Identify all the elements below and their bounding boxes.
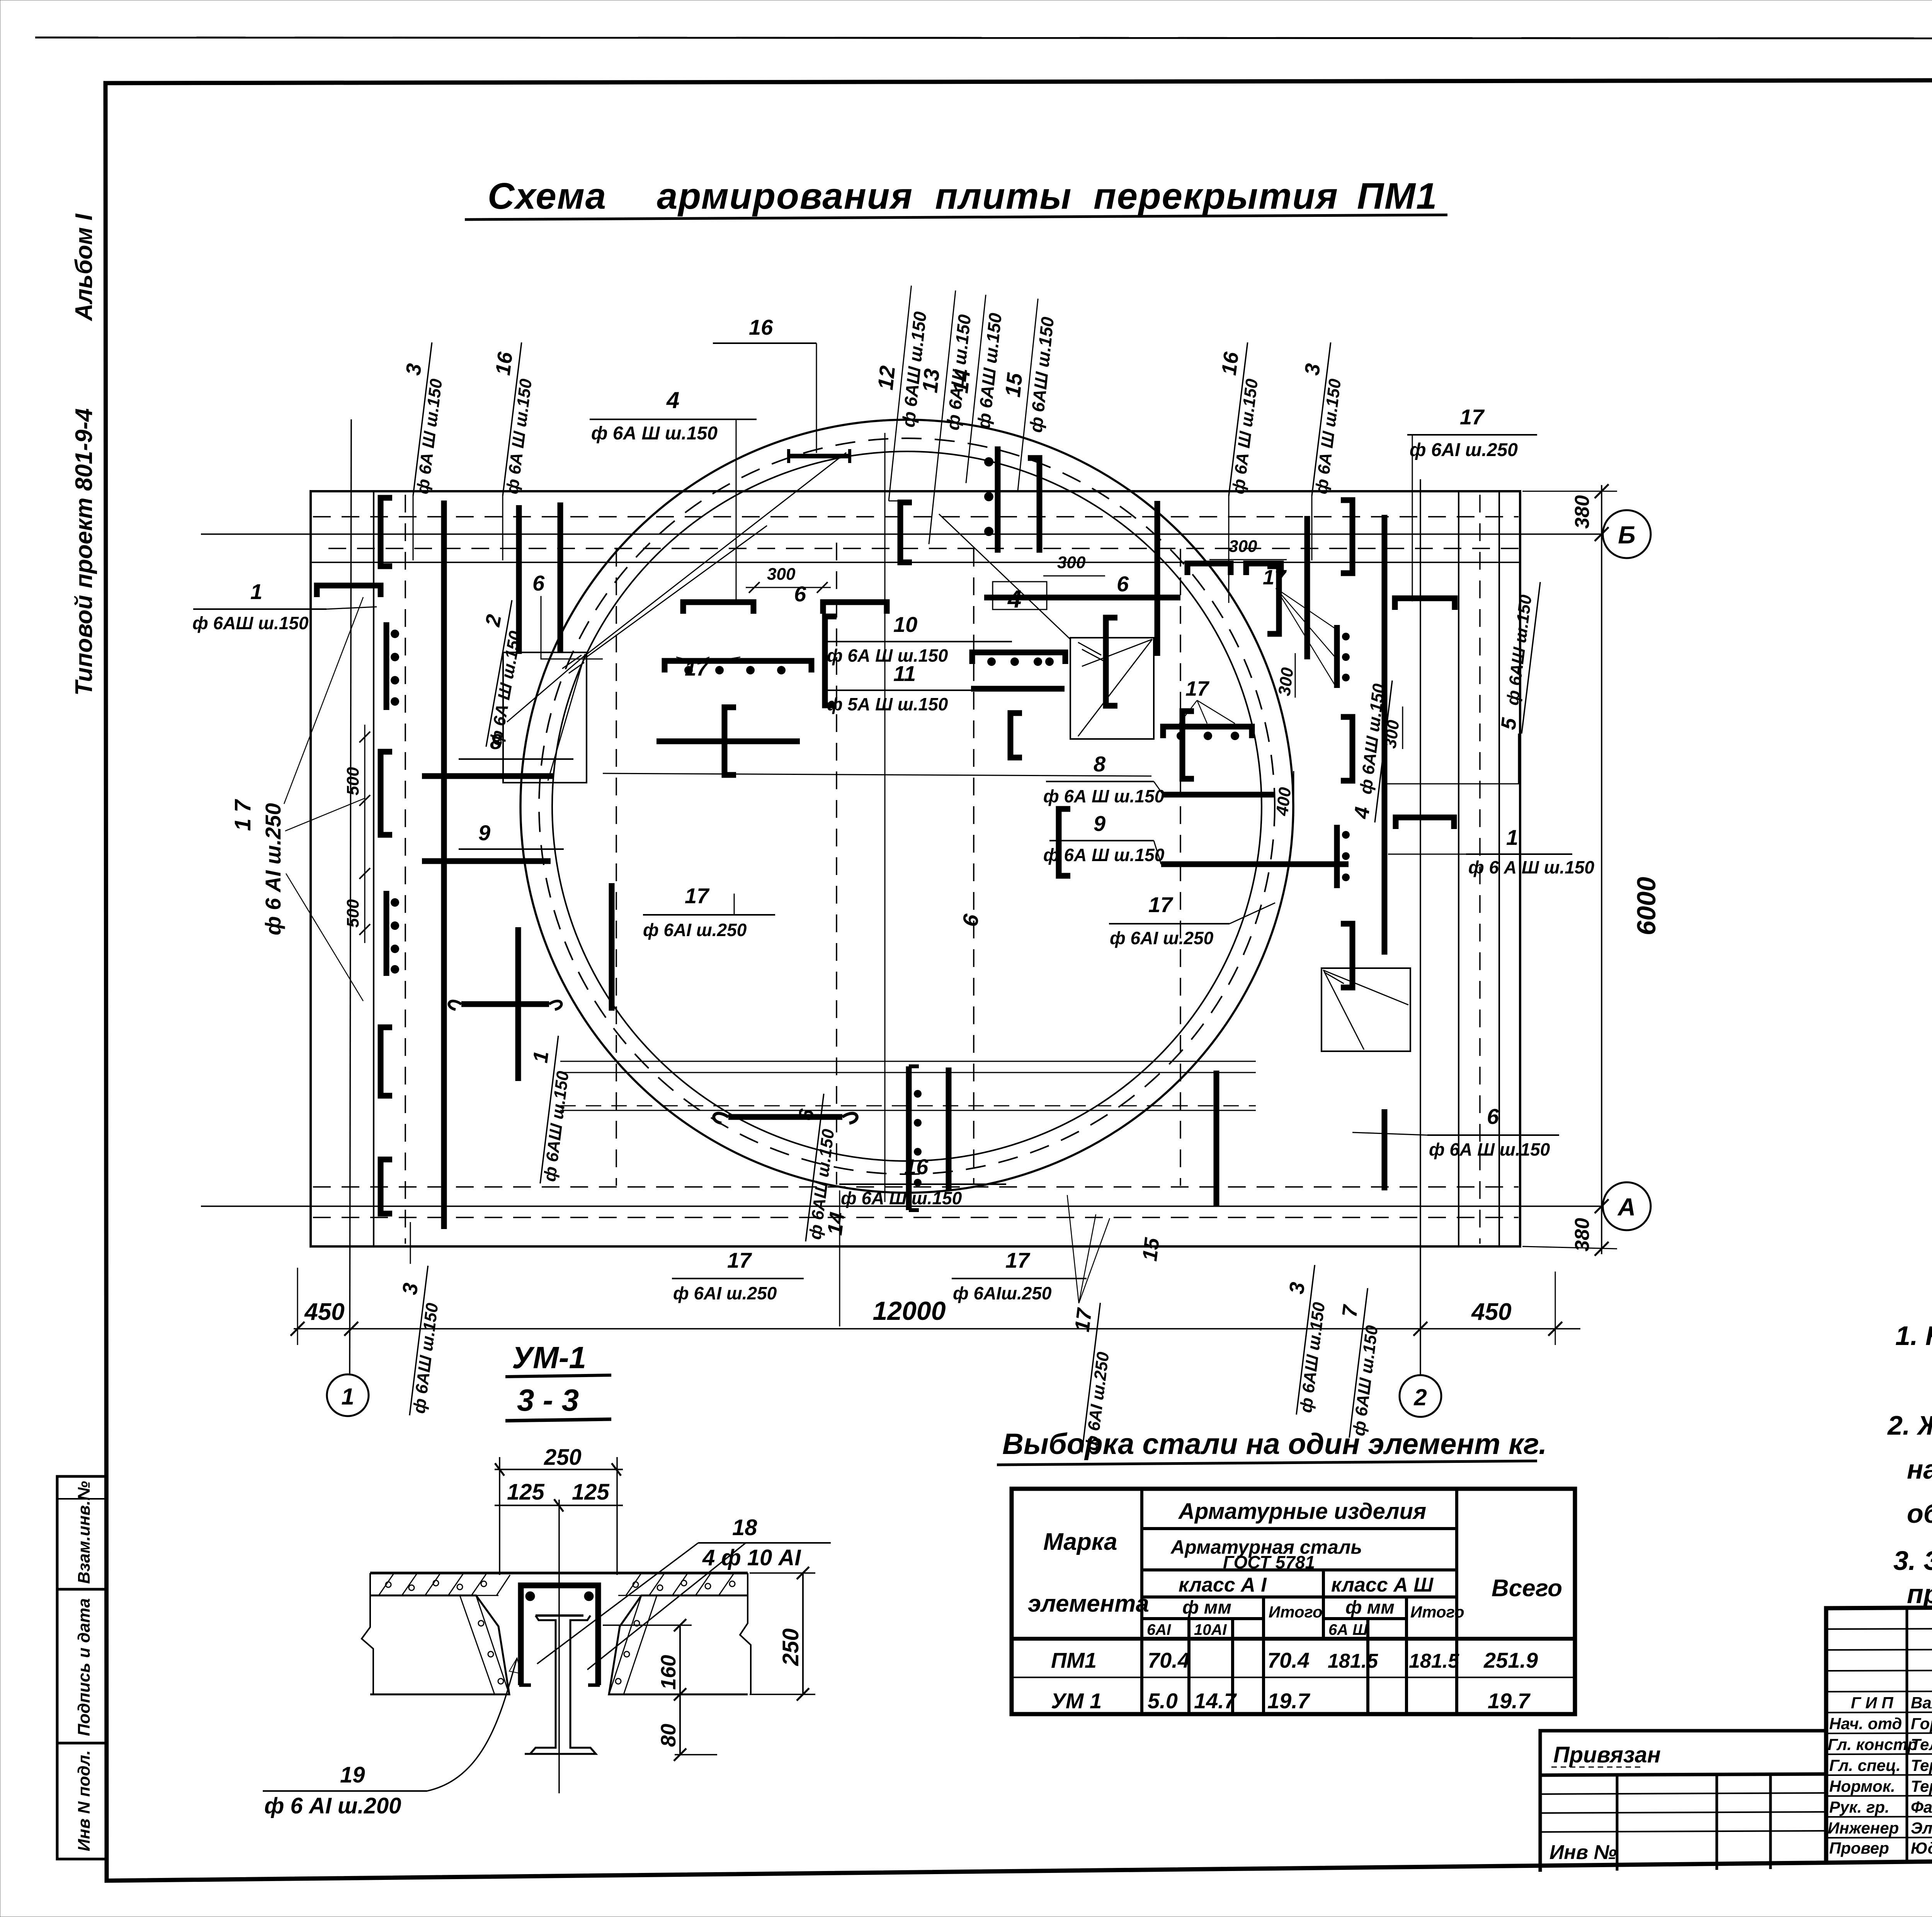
- left wall comb bars pos.17: [384, 622, 389, 710]
- svg-text:плиты: плиты: [935, 175, 1072, 217]
- svg-text:6: 6: [794, 582, 806, 606]
- centre horizontal bars: [984, 595, 1180, 601]
- svg-text:17: 17: [1070, 1306, 1096, 1333]
- svg-text:2: 2: [1413, 1384, 1427, 1410]
- svg-text:ф 6А Ш ш.150: ф 6А Ш ш.150: [413, 378, 446, 495]
- svg-text:ф 6АIш.250: ф 6АIш.250: [953, 1283, 1052, 1303]
- signature rows: [1826, 1628, 1932, 1838]
- svg-text:400: 400: [1272, 786, 1295, 817]
- axis line B: [201, 533, 1603, 535]
- svg-text:Альбом I: Альбом I: [71, 213, 97, 322]
- svg-text:5.0: 5.0: [1148, 1689, 1178, 1713]
- svg-text:класс А I: класс А I: [1179, 1574, 1267, 1596]
- svg-text:оборудования (насосов) равны: оборудования (насосов) равный 1.2т: [1907, 1498, 1932, 1529]
- svg-text:19: 19: [340, 1762, 365, 1788]
- svg-text:5: 5: [1497, 716, 1521, 731]
- svg-text:160: 160: [657, 1655, 680, 1690]
- top centre comb: [665, 661, 811, 672]
- svg-text:ф 6АШ ш.150: ф 6АШ ш.150: [540, 1070, 573, 1183]
- svg-text:70.4: 70.4: [1267, 1648, 1310, 1672]
- svg-text:принят 15мм: принят 15мм: [1907, 1579, 1932, 1609]
- svg-text:армирования: армирования: [657, 175, 913, 217]
- I-beam: [525, 1616, 596, 1754]
- svg-text:17: 17: [1148, 892, 1173, 917]
- svg-text:ф 6АI ш.250: ф 6АI ш.250: [1110, 928, 1214, 948]
- svg-text:6А Ш: 6А Ш: [1328, 1621, 1368, 1638]
- svg-text:10АI: 10АI: [1194, 1621, 1227, 1638]
- svg-text:14.7: 14.7: [1194, 1689, 1237, 1713]
- svg-text:380: 380: [1571, 495, 1594, 529]
- svg-text:Инв №: Инв №: [1549, 1841, 1617, 1864]
- bracket centre: [1010, 713, 1022, 758]
- axis line 2: [1420, 479, 1421, 1375]
- svg-text:Подпись и дата: Подпись и дата: [75, 1598, 94, 1736]
- combs with dots near top centre: [995, 446, 1001, 553]
- svg-text:Нормок.: Нормок.: [1829, 1777, 1895, 1795]
- svg-text:Итого: Итого: [1269, 1603, 1323, 1621]
- svg-text:ф 6АШ ш.150: ф 6АШ ш.150: [1349, 1324, 1382, 1437]
- svg-text:6: 6: [532, 571, 545, 595]
- svg-text:4: 4: [1350, 805, 1374, 820]
- svg-text:ф 6 АI ш.200: ф 6 АI ш.200: [264, 1793, 401, 1818]
- svg-text:УМ-1: УМ-1: [512, 1340, 586, 1375]
- right long bars: [1382, 1109, 1388, 1190]
- svg-text:ф 6АI ш.250: ф 6АI ш.250: [1410, 440, 1518, 460]
- privyazan block: [1540, 1731, 1826, 1872]
- svg-text:Фаерштейн: Фаерштейн: [1911, 1798, 1932, 1816]
- svg-text:251.9: 251.9: [1483, 1648, 1538, 1672]
- wall inner face left: [373, 491, 374, 1246]
- signature labels: [1828, 1694, 1932, 1857]
- svg-text:500: 500: [344, 767, 362, 795]
- left haunch outline: [370, 1595, 509, 1694]
- svg-text:11: 11: [893, 661, 916, 686]
- rotated labels right side: [1496, 579, 1540, 734]
- svg-text:ф 5А Ш ш.150: ф 5А Ш ш.150: [827, 694, 948, 714]
- svg-text:Арматурные изделия: Арматурные изделия: [1178, 1499, 1426, 1524]
- svg-text:80: 80: [657, 1724, 680, 1747]
- svg-text:19.7: 19.7: [1267, 1689, 1311, 1713]
- svg-text:300: 300: [1057, 553, 1086, 572]
- tank circles: [520, 420, 1293, 1193]
- rotated labels inside plan: [460, 596, 530, 750]
- svg-text:6: 6: [1487, 1104, 1499, 1129]
- svg-text:16: 16: [1217, 350, 1243, 376]
- rotated labels below plan: [384, 1263, 447, 1418]
- svg-text:ф 6АШ ш.150: ф 6АШ ш.150: [1503, 594, 1536, 707]
- svg-text:15: 15: [1138, 1236, 1164, 1262]
- svg-text:перекрытия: перекрытия: [1094, 175, 1338, 217]
- table frame: [1012, 1489, 1575, 1714]
- svg-text:ф 6А Ш ш.150: ф 6А Ш ш.150: [1043, 845, 1165, 865]
- svg-text:2: 2: [481, 613, 506, 628]
- svg-text:16: 16: [904, 1154, 929, 1179]
- svg-text:450: 450: [304, 1299, 344, 1325]
- svg-text:на полезную нагрузку 400 кг: на полезную нагрузку 400 кг/м² и вес: [1907, 1454, 1932, 1485]
- svg-text:Провер: Провер: [1829, 1839, 1889, 1857]
- slab hatched band: [370, 1573, 748, 1595]
- data rows: [1051, 1648, 1538, 1713]
- bottom right opening: [1321, 968, 1410, 1051]
- svg-text:3. Защитный слой арматуры: 3. Защитный слой арматуры для плит: [1893, 1546, 1932, 1576]
- right haunch outline: [609, 1595, 748, 1694]
- svg-text:1: 1: [1506, 825, 1518, 850]
- svg-text:500: 500: [344, 899, 362, 928]
- extension lines for dims: [499, 1457, 500, 1575]
- wall inner face top: [311, 562, 1520, 563]
- svg-text:ф 6А Ш ш.150: ф 6А Ш ш.150: [841, 1188, 962, 1208]
- svg-text:125: 125: [507, 1479, 545, 1505]
- 16 top bracket bar: [789, 454, 850, 458]
- svg-text:181.5: 181.5: [1328, 1650, 1378, 1672]
- svg-text:Нач. отд: Нач. отд: [1829, 1714, 1902, 1733]
- svg-text:250: 250: [544, 1445, 582, 1470]
- svg-text:Марка: Марка: [1043, 1529, 1117, 1555]
- top trim line: [35, 37, 1932, 39]
- svg-text:Вахрушов: Вахрушов: [1911, 1694, 1932, 1712]
- svg-text:Горбунов: Горбунов: [1911, 1714, 1932, 1733]
- axis line 1: [350, 419, 351, 1374]
- svg-text:3: 3: [401, 362, 426, 376]
- svg-text:17: 17: [1185, 677, 1210, 700]
- svg-text:250: 250: [778, 1628, 803, 1666]
- svg-text:181.5: 181.5: [1409, 1650, 1459, 1672]
- svg-text:ф 6АШ ш.150: ф 6АШ ш.150: [410, 1302, 442, 1415]
- svg-text:элемента: элемента: [1028, 1590, 1149, 1617]
- svg-text:125: 125: [572, 1479, 610, 1505]
- svg-text:ф 6А Ш ш.150: ф 6А Ш ш.150: [1312, 378, 1345, 495]
- svg-text:Г И П: Г И П: [1851, 1694, 1893, 1712]
- svg-text:3: 3: [1300, 362, 1325, 376]
- svg-text:Взам.инв.№: Взам.инв.№: [75, 1481, 94, 1584]
- svg-text:Инженер: Инженер: [1828, 1819, 1899, 1837]
- svg-text:Типовой проект 801-9-4: Типовой проект 801-9-4: [71, 408, 97, 696]
- svg-text:19.7: 19.7: [1488, 1689, 1531, 1713]
- axis line A: [201, 1205, 1603, 1207]
- svg-text:Привязан: Привязан: [1553, 1742, 1661, 1767]
- svg-text:Всего: Всего: [1492, 1575, 1562, 1602]
- svg-text:17: 17: [1005, 1248, 1031, 1272]
- svg-text:17: 17: [685, 657, 709, 680]
- left sidebar cells: [57, 1476, 107, 1859]
- bottom centre marks: [728, 1114, 842, 1120]
- svg-text:Гл. спец.: Гл. спец.: [1829, 1756, 1901, 1774]
- svg-text:1: 1: [341, 1384, 354, 1410]
- svg-text:9: 9: [1094, 811, 1105, 836]
- U channel rebar: [521, 1585, 598, 1685]
- svg-text:ф 6АI ш.250: ф 6АI ш.250: [673, 1283, 777, 1303]
- svg-text:1. Настоящий лист рассматри: 1. Настоящий лист рассматривать совместн…: [1895, 1321, 1932, 1351]
- svg-text:Юдин: Юдин: [1911, 1839, 1932, 1857]
- svg-text:16: 16: [749, 315, 773, 339]
- svg-text:15: 15: [1000, 371, 1027, 398]
- right side bars: [1155, 501, 1160, 656]
- svg-text:Инв N подл.: Инв N подл.: [75, 1750, 94, 1851]
- svg-text:6: 6: [1117, 572, 1129, 596]
- svg-text:ф мм: ф мм: [1182, 1597, 1231, 1618]
- svg-text:18: 18: [732, 1515, 757, 1540]
- dim 160 / 80: [679, 1625, 681, 1755]
- svg-text:450: 450: [1471, 1299, 1511, 1325]
- right comb (17): [1334, 625, 1340, 688]
- long bar pos.5 right: [1382, 515, 1388, 955]
- svg-text:3: 3: [1285, 1281, 1309, 1295]
- svg-text:14: 14: [948, 368, 975, 395]
- svg-text:8: 8: [1094, 752, 1106, 776]
- svg-text:класс А Ш: класс А Ш: [1331, 1574, 1434, 1596]
- svg-text:Б: Б: [1618, 521, 1635, 549]
- svg-text:ф 6А Ш ш.150: ф 6А Ш ш.150: [503, 378, 536, 495]
- main stamp frame: [1826, 1604, 1932, 1862]
- hidden wall edges dashed: [313, 495, 1519, 1244]
- left wall bent-bar marks: [317, 498, 392, 1214]
- svg-text:ПМ1: ПМ1: [1051, 1648, 1097, 1672]
- svg-text:16: 16: [491, 350, 517, 376]
- svg-text:7: 7: [1338, 1303, 1362, 1318]
- right dimension line: [1601, 485, 1602, 1254]
- svg-text:13: 13: [917, 368, 944, 394]
- right dim 250: [802, 1573, 804, 1694]
- svg-text:ф 6 А Ш ш.150: ф 6 А Ш ш.150: [1468, 857, 1595, 877]
- svg-text:Терешин: Терешин: [1911, 1777, 1932, 1795]
- svg-text:ф 6 АI ш.250: ф 6 АI ш.250: [261, 803, 285, 935]
- svg-text:ф мм: ф мм: [1345, 1597, 1395, 1618]
- slab bottom lines: [370, 1694, 509, 1696]
- svg-text:300: 300: [767, 565, 796, 584]
- svg-text:1: 1: [529, 1050, 553, 1064]
- bottom dimension line: [294, 1328, 1580, 1330]
- svg-text:6: 6: [794, 1107, 818, 1122]
- svg-text:6000: 6000: [1632, 877, 1661, 935]
- svg-text:6АI: 6АI: [1147, 1621, 1171, 1638]
- bottom right comb: [1214, 1071, 1219, 1206]
- svg-text:12: 12: [873, 364, 900, 391]
- right wall brackets: [1341, 500, 1455, 987]
- svg-text:9: 9: [478, 821, 490, 845]
- svg-text:6: 6: [957, 912, 984, 928]
- svg-text:Рук. гр.: Рук. гр.: [1829, 1798, 1889, 1816]
- svg-text:Итого: Итого: [1410, 1603, 1464, 1621]
- svg-text:1: 1: [250, 579, 262, 604]
- svg-text:380: 380: [1571, 1218, 1594, 1251]
- svg-text:ф 6А Ш ш.150: ф 6А Ш ш.150: [1429, 1139, 1550, 1159]
- svg-text:70.4: 70.4: [1148, 1648, 1190, 1672]
- svg-text:ф 6А Ш ш.150: ф 6А Ш ш.150: [591, 423, 718, 444]
- svg-text:ф 6АШ ш.150: ф 6АШ ш.150: [1296, 1301, 1329, 1414]
- svg-text:ГОСТ 5781: ГОСТ 5781: [1223, 1552, 1315, 1572]
- svg-text:3 - 3: 3 - 3: [517, 1383, 579, 1417]
- svg-text:ПМ1: ПМ1: [1357, 175, 1437, 217]
- svg-text:ф 6А Ш ш.150: ф 6А Ш ш.150: [827, 645, 948, 666]
- svg-text:4: 4: [666, 387, 679, 413]
- interior brackets / bars (top centre): [683, 602, 1194, 876]
- svg-text:Выборка стали на один элем: Выборка стали на один элемент кг.: [1002, 1428, 1547, 1461]
- hooked distribution bar left: [461, 1001, 549, 1007]
- svg-text:Теляковский: Теляковский: [1911, 1735, 1932, 1754]
- svg-text:300: 300: [1229, 537, 1257, 556]
- svg-text:300: 300: [1381, 719, 1403, 749]
- svg-text:ф 6АШ ш.150: ф 6АШ ш.150: [192, 613, 309, 633]
- long bar pos.16: [516, 505, 522, 654]
- svg-text:ф 6А Ш ш.150: ф 6А Ш ш.150: [1043, 786, 1165, 806]
- signature section columns: [1907, 1608, 1932, 1863]
- svg-text:17: 17: [1263, 566, 1287, 589]
- slab top line: [370, 1572, 748, 1575]
- svg-text:17: 17: [685, 884, 710, 908]
- rotated labels above plan: [387, 283, 1349, 603]
- svg-text:ф 6А Ш ш.150: ф 6А Ш ш.150: [1229, 378, 1262, 495]
- left opening: [503, 652, 587, 783]
- svg-text:4: 4: [1007, 585, 1022, 613]
- svg-text:ф 6АI ш.250: ф 6АI ш.250: [643, 920, 747, 940]
- svg-text:3: 3: [398, 1282, 422, 1296]
- svg-text:А: А: [1617, 1193, 1636, 1221]
- interior construction lines: [560, 1061, 1256, 1062]
- svg-text:1 7: 1 7: [230, 799, 255, 831]
- svg-text:Элькина: Элькина: [1911, 1819, 1932, 1837]
- right opening: [1070, 638, 1154, 739]
- svg-text:Гл. констр: Гл. констр: [1828, 1735, 1917, 1754]
- svg-text:300: 300: [1275, 666, 1297, 697]
- svg-text:10: 10: [893, 612, 917, 637]
- svg-text:17: 17: [727, 1248, 752, 1272]
- svg-text:Терешин: Терешин: [1911, 1756, 1932, 1774]
- svg-text:12000: 12000: [872, 1296, 946, 1326]
- svg-text:УМ 1: УМ 1: [1051, 1689, 1102, 1713]
- wall inner face right: [1458, 491, 1459, 1246]
- svg-text:Схема: Схема: [488, 175, 607, 217]
- svg-text:17: 17: [1460, 405, 1485, 429]
- svg-text:2. Железобетанное перекрытие: 2. Железобетанное перекрытие расчитано: [1887, 1410, 1932, 1440]
- sidebar cell labels: [75, 1481, 94, 1851]
- slab outline: [311, 491, 1520, 1246]
- long bar pos.2: [441, 501, 447, 1229]
- svg-text:ф 6А Ш ш.150: ф 6А Ш ш.150: [486, 629, 525, 747]
- break marks: [362, 1573, 373, 1694]
